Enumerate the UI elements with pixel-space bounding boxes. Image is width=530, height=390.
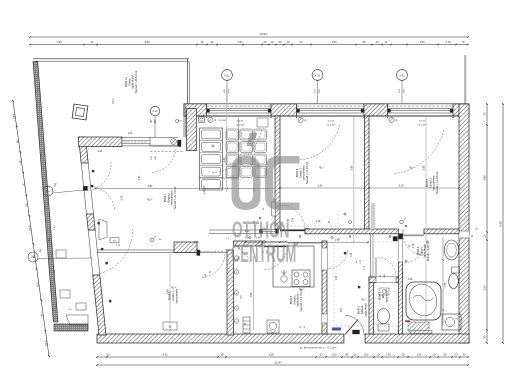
svg-text:Konyha: Konyha <box>292 295 296 305</box>
svg-text:6.65: 6.65 <box>499 221 503 227</box>
svg-text:B504.4: B504.4 <box>289 295 293 304</box>
svg-text:lam.parketta: lam.parketta <box>174 288 178 303</box>
svg-text:3.50: 3.50 <box>483 285 487 291</box>
svg-text:1.20: 1.20 <box>385 352 391 356</box>
svg-text:22-6-500: 22-6-500 <box>218 120 228 122</box>
svg-text:H: H <box>261 208 265 210</box>
svg-text:B504.1: B504.1 <box>357 305 361 314</box>
svg-text:3.08: 3.08 <box>268 352 274 356</box>
svg-text:Szoba 2: Szoba 2 <box>298 168 302 178</box>
svg-text:22-6-600: 22-6-600 <box>327 124 337 126</box>
svg-text:3.52: 3.52 <box>148 185 153 188</box>
svg-text:Tasnált = 11,34 m2: Tasnált = 11,34 m2 <box>305 161 309 184</box>
svg-text:Tasnált = 23,74 m2: Tasnált = 23,74 m2 <box>173 186 177 209</box>
svg-text:2.87: 2.87 <box>341 307 343 312</box>
svg-text:B504.11: B504.11 <box>124 77 128 87</box>
svg-text:22-6-600: 22-6-600 <box>236 124 246 126</box>
svg-text:pro 90: pro 90 <box>237 119 244 122</box>
svg-text:lapburkolat: lapburkolat <box>384 289 388 302</box>
svg-text:2.42: 2.42 <box>121 195 124 200</box>
svg-text:1.50: 1.50 <box>419 40 425 44</box>
svg-text:3.10: 3.10 <box>398 183 404 187</box>
svg-text:14.94: 14.94 <box>259 32 267 36</box>
svg-text:lapburkolat: lapburkolat <box>423 244 427 257</box>
svg-text:CENTRUM: CENTRUM <box>231 241 296 269</box>
svg-text:B504.3: B504.3 <box>378 291 382 300</box>
svg-text:1.01: 1.01 <box>416 352 422 356</box>
svg-text:1.98: 1.98 <box>56 40 62 44</box>
svg-text:1.88: 1.88 <box>445 282 447 287</box>
svg-text:3.88: 3.88 <box>483 175 487 181</box>
svg-text:1.50: 1.50 <box>331 40 337 44</box>
svg-text:1.19: 1.19 <box>445 40 451 44</box>
svg-text:Tasnált = 28,51 m2: Tasnált = 28,51 m2 <box>134 70 138 93</box>
svg-text:1.38: 1.38 <box>316 221 321 223</box>
svg-text:3.40: 3.40 <box>222 157 226 163</box>
svg-text:Tasnált = 8,62 m2: Tasnált = 8,62 m2 <box>426 240 430 262</box>
svg-text:1.29: 1.29 <box>351 252 353 257</box>
svg-text:lapburkolat: lapburkolat <box>363 303 367 316</box>
svg-text:1.00: 1.00 <box>331 352 337 356</box>
svg-text:1.08: 1.08 <box>408 279 413 281</box>
svg-text:B504.6: B504.6 <box>295 168 299 177</box>
svg-text:Fürdő 1: Fürdő 1 <box>419 246 423 256</box>
svg-text:C3 ▽: C3 ▽ <box>111 97 115 104</box>
svg-text:1.51: 1.51 <box>237 40 243 44</box>
svg-text:K-21: K-21 <box>399 74 405 77</box>
svg-text:2.06: 2.06 <box>98 151 103 153</box>
svg-text:3.52: 3.52 <box>144 40 150 44</box>
svg-text:M: M <box>455 318 457 321</box>
svg-text:lapburkolat: lapburkolat <box>296 293 300 306</box>
svg-text:Nappali: Nappali <box>166 193 170 203</box>
svg-text:lam.parketta: lam.parketta <box>432 175 436 190</box>
svg-text:pro 90: pro 90 <box>328 119 335 122</box>
svg-text:WC: WC <box>381 294 385 299</box>
svg-text:B504.8: B504.8 <box>168 291 172 300</box>
svg-text:4.32: 4.32 <box>162 352 168 356</box>
svg-text:Szoba 1: Szoba 1 <box>171 291 175 301</box>
svg-text:2-05: 2-05 <box>205 273 207 278</box>
svg-text:1.98: 1.98 <box>334 238 340 242</box>
svg-text:1.00: 1.00 <box>128 133 133 135</box>
svg-text:B504.7: B504.7 <box>163 193 167 202</box>
svg-text:elv: elv <box>356 261 358 264</box>
svg-text:1.08: 1.08 <box>194 242 199 244</box>
svg-text:12.97: 12.97 <box>274 360 282 364</box>
svg-text:B504.2: B504.2 <box>416 246 420 255</box>
svg-text:KO: KO <box>113 241 116 243</box>
svg-text:lam.parketta: lam.parketta <box>170 190 174 205</box>
svg-text:Erkély: Erkély <box>127 78 131 86</box>
svg-text:Tasnált = 14,75 m2: Tasnált = 14,75 m2 <box>299 288 303 311</box>
svg-text:1.91: 1.91 <box>317 183 323 187</box>
svg-text:K-21: K-21 <box>224 74 230 77</box>
svg-text:Szoba 3: Szoba 3 <box>428 178 432 188</box>
svg-text:2.14: 2.14 <box>413 243 415 248</box>
svg-text:pro 90: pro 90 <box>419 119 426 122</box>
svg-text:2.80: 2.80 <box>349 165 353 171</box>
svg-text:lam.parketta: lam.parketta <box>302 165 306 180</box>
svg-text:1' 1'': 1' 1'' <box>226 238 231 240</box>
svg-text:Tasnált = 12,18 m2: Tasnált = 12,18 m2 <box>435 171 439 194</box>
svg-text:B504.5: B504.5 <box>425 178 429 187</box>
svg-text:2.95: 2.95 <box>249 292 253 298</box>
svg-text:lapburkolat: lapburkolat <box>131 75 135 88</box>
svg-text:gk. álmennyezet als. s.: +2,12: gk. álmennyezet als. s.: +2,120m <box>300 347 337 350</box>
svg-text:K-12: K-12 <box>153 111 159 113</box>
svg-text:2.80: 2.80 <box>422 165 426 171</box>
svg-text:2.40: 2.40 <box>139 175 141 180</box>
svg-text:1.01: 1.01 <box>363 352 369 356</box>
svg-text:K-21: K-21 <box>315 74 321 77</box>
